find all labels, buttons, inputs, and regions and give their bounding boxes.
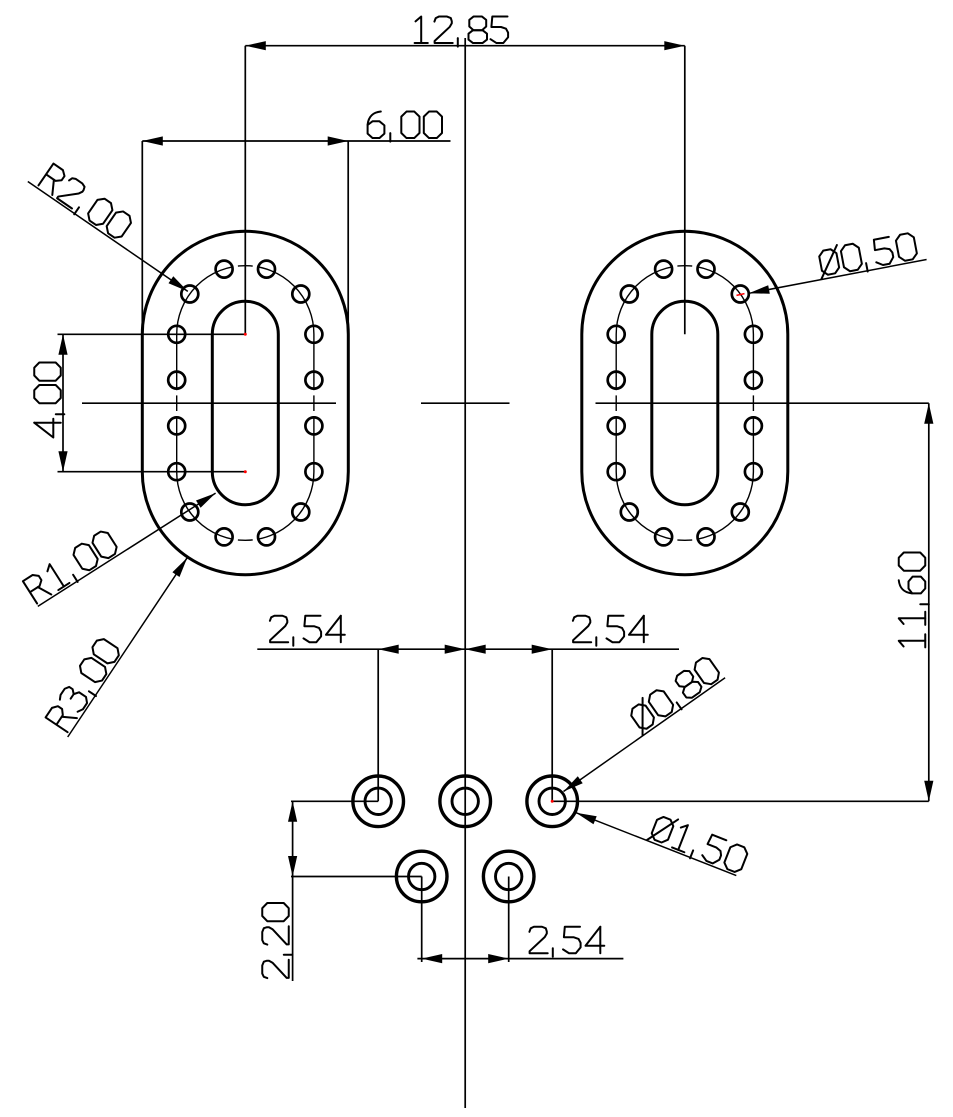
dimension 12,85 left extension line [244,46,246,335]
leader line R3,00 [68,558,188,737]
dimension 2,20 bottom arrow [288,856,297,877]
left stadium hole Ø0.50 #6 [305,326,322,343]
dimension text 2,20 [262,903,292,978]
right stadium hole Ø0.50 #6 [745,326,762,343]
left stadium hole Ø0.50 #11 [168,463,185,480]
dimension 4,00 bottom extension line [58,471,246,473]
right stadium hole Ø0.50 #14 [655,528,672,545]
left stadium hole Ø0.50 #2 [216,261,233,278]
leader text R2,00 [36,164,133,244]
bottom 2,54 left extension line [421,877,423,963]
left slot inner obround R1.00 [212,301,278,504]
pad 3 outer circle Ø1.50 [527,776,578,827]
right stadium hole Ø0.50 #15 [698,528,715,545]
right stadium hole Ø0.50 #5 [608,326,625,343]
dimension text 4,00 [34,363,64,438]
right stadium hole Ø0.50 #3 [698,261,715,278]
dimension 2,20 bottom extension line [291,876,422,878]
left stadium hole Ø0.50 #10 [305,417,322,434]
dimension 6,00 right arrow [328,136,349,145]
left stadium hole Ø0.50 #5 [168,326,185,343]
main vertical centerline [464,38,466,1108]
dimension 6,00 right extension line [347,141,349,336]
right stadium hole Ø0.50 #8 [745,372,762,389]
leader text R1,00 [23,529,121,607]
leader text R3,00 [46,636,125,734]
red center mark pad 3 [551,800,554,803]
dimension 12,85 left arrow [245,41,265,50]
dimension 12,85 right extension line [684,46,686,335]
left stadium hole Ø0.50 #9 [168,417,185,434]
right bolt-pattern pitch centerline R2.00 [616,266,753,541]
dimension 6,00 dim line [142,140,450,142]
pad 1 outer circle Ø1.50 [353,776,404,827]
pad 1 inner circle Ø0.80 [365,788,391,814]
pad 2 outer circle Ø1.50 [440,776,491,827]
leader line Ø1,50 [576,813,736,876]
pad 5 outer circle Ø1.50 [483,851,534,902]
extension line to pad 1 [377,649,379,801]
leader arrow R1,00 [196,493,216,508]
leader arrow Ø0,50 [749,285,770,294]
dimension 2,20 dim line [292,801,294,981]
left stadium hole Ø0.50 #16 [292,504,309,521]
dimension text bottom 2,54 [529,927,604,957]
right stadium hole Ø0.50 #9 [608,417,625,434]
left stadium hole Ø0.50 #14 [216,528,233,545]
left stadium hole Ø0.50 #15 [258,528,275,545]
right stadium hole Ø0.50 #2 [655,261,672,278]
horizontal centerline left segment [82,402,336,404]
right 2,54 right arrow [532,645,553,654]
dimension text 6,00 [368,112,442,142]
red mark in right stadium hole [737,294,745,296]
right stadium hole Ø0.50 #13 [621,504,638,521]
dimension 11,60 bottom extension line (pad row centerline) [552,800,929,802]
pad 4 outer circle Ø1.50 [396,851,447,902]
bottom 2,54 left arrow [422,954,443,963]
extension line to pad 3 [551,649,553,801]
left stadium hole Ø0.50 #8 [305,372,322,389]
left stadium hole Ø0.50 #7 [168,372,185,389]
dimension 12,85 right arrow [664,41,685,50]
right stadium hole Ø0.50 #10 [745,417,762,434]
left 2,54 right arrow [445,645,466,654]
leader text Ø0,80 [625,654,724,737]
bottom dimension 2,54 dim line [417,958,623,960]
left 2,54 left arrow [378,645,399,654]
right 2,54 left arrow [465,645,486,654]
leader line Ø0,50 [749,260,927,294]
red center mark left slot bottom arc [244,470,247,473]
leader arrow R3,00 [172,558,187,577]
left stadium hole Ø0.50 #1 [181,286,198,303]
dimensions 2,54 2,54 shared dim line [257,648,679,650]
dimension 4,00 top extension line [58,333,246,335]
dimension 11,60 bottom arrow [924,781,933,802]
right stadium hole Ø0.50 #16 [732,504,749,521]
left stadium hole Ø0.50 #3 [258,261,275,278]
right stadium hole Ø0.50 #12 [745,463,762,480]
leader arrow Ø1,50 [576,813,597,825]
right stadium hole Ø0.50 #11 [608,463,625,480]
bottom 2,54 right extension line [508,877,510,963]
dimension text 12,85 [415,17,509,47]
right slot outer obround outline R3.00 [582,231,788,574]
leader arrow R2,00 [169,276,188,291]
horizontal centerline middle dash [421,402,510,404]
dimension 4,00 dim line [62,334,64,471]
dimension text 11,60 [899,553,929,648]
leader text Ø0,50 [816,231,919,281]
dimension text left 2,54 [270,616,345,646]
right stadium hole Ø0.50 #7 [608,372,625,389]
left bolt-pattern pitch centerline R2.00 [177,266,314,541]
left stadium hole Ø0.50 #12 [305,463,322,480]
dimension 12,85 dim line [245,45,685,47]
dimension 2,20 top extension line [291,800,378,802]
dimension 11,60 dim line [928,403,930,801]
leader line R2,00 [28,182,188,292]
right stadium hole Ø0.50 #1 [621,286,638,303]
left slot outer obround outline R3.00 [142,231,348,574]
leader arrow Ø0,80 [564,776,583,791]
dimension 11,60 top arrow [924,403,933,424]
leader text Ø1,50 [646,812,749,878]
red center mark left slot top arc [244,333,247,336]
leader line Ø0,80 [564,678,726,792]
dimension 6,00 left extension line [141,141,143,336]
dimension 4,00 top arrow [58,334,67,355]
pad 5 inner circle Ø0.80 [496,863,522,889]
dimension text right 2,54 [573,616,648,646]
right stadium hole Ø0.50 #4 [732,286,749,303]
dimension 6,00 left arrow [142,136,163,145]
dimension 2,20 top arrow [288,801,297,822]
pad 2 inner circle Ø0.80 [452,788,478,814]
leader line R1,00 [38,493,216,606]
left stadium hole Ø0.50 #4 [292,286,309,303]
dimension 4,00 bottom arrow [58,451,67,472]
right slot inner obround R1.00 [652,301,718,504]
pad 3 inner circle Ø0.80 [539,788,565,814]
left stadium hole Ø0.50 #13 [181,504,198,521]
horizontal centerline right segment [596,402,929,404]
bottom 2,54 right arrow [488,954,509,963]
pad 4 inner circle Ø0.80 [409,863,435,889]
